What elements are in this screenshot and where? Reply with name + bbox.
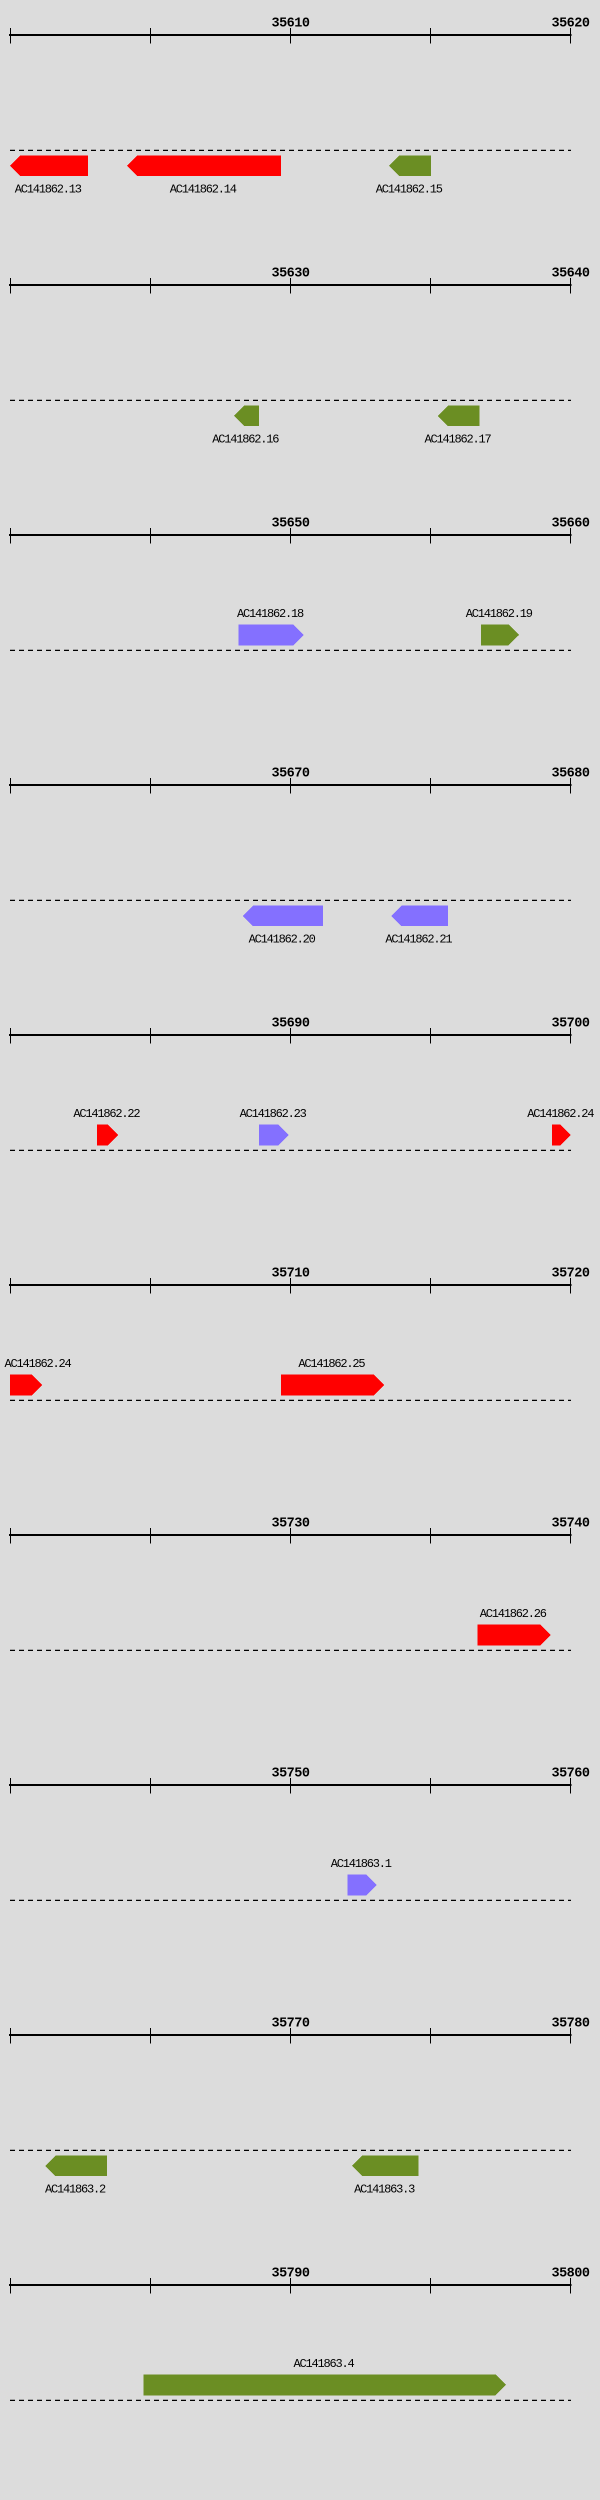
gene AC141862.20 arrow (reverse strand) <box>243 906 323 927</box>
svg-text:35710: 35710 <box>271 1267 309 1282</box>
panel 6 tick 35705 <box>150 1278 151 1294</box>
panel 2 tick 35640 <box>570 278 571 294</box>
panel 2 tick 35635 <box>430 278 431 294</box>
panel 10 tick 35790 <box>290 2278 291 2294</box>
panel 10 tick 35795 <box>430 2278 431 2294</box>
svg-text:35700: 35700 <box>551 1017 589 1032</box>
svg-text:AC141862.25: AC141862.25 <box>298 1357 365 1371</box>
panel 6 tick 35710 <box>290 1278 291 1294</box>
svg-text:35660: 35660 <box>551 517 589 532</box>
panel 5 tick 35685 <box>150 1028 151 1044</box>
panel 2 ruler line <box>9 284 572 286</box>
svg-text:AC141863.4: AC141863.4 <box>293 2357 354 2371</box>
svg-text:35780: 35780 <box>551 2017 589 2032</box>
svg-text:AC141862.19: AC141862.19 <box>466 607 533 621</box>
gene AC141862.25 arrow (forward strand) <box>281 1375 385 1396</box>
panel 3 ruler line <box>9 534 572 536</box>
gene AC141862.19 arrow (forward strand) <box>481 625 519 646</box>
svg-text:AC141862.24: AC141862.24 <box>527 1107 594 1121</box>
panel 6 tick 35715 <box>430 1278 431 1294</box>
svg-text:AC141863.1: AC141863.1 <box>331 1857 392 1871</box>
panel 8 dashed baseline <box>10 1899 571 1901</box>
panel 8 tick 35755 <box>430 1778 431 1794</box>
gene AC141862.24 arrow (forward strand) <box>10 1375 42 1396</box>
gene AC141862.15 arrow (reverse strand) <box>389 156 431 177</box>
gene AC141862.23 arrow (forward strand) <box>259 1125 289 1146</box>
panel 7 tick 35720 <box>10 1528 11 1544</box>
panel 4 ruler line <box>9 784 572 786</box>
panel 2 dashed baseline <box>10 399 571 401</box>
panel 8 tick 35760 <box>570 1778 571 1794</box>
svg-text:AC141862.14: AC141862.14 <box>170 182 237 196</box>
panel 8 tick 35745 <box>150 1778 151 1794</box>
svg-text:AC141862.23: AC141862.23 <box>240 1107 307 1121</box>
gene AC141862.21 arrow (reverse strand) <box>391 906 448 927</box>
gene AC141862.14 arrow (reverse strand) <box>127 156 281 177</box>
panel 5 tick 35680 <box>10 1028 11 1044</box>
panel 2 tick 35625 <box>150 278 151 294</box>
panel 7 dashed baseline <box>10 1649 571 1651</box>
panel 9 tick 35775 <box>430 2028 431 2044</box>
panel 4 tick 35680 <box>570 778 571 794</box>
svg-text:AC141863.3: AC141863.3 <box>354 2182 415 2196</box>
gene AC141862.22 arrow (forward strand) <box>97 1125 119 1146</box>
svg-text:35650: 35650 <box>271 517 309 532</box>
svg-text:AC141862.26: AC141862.26 <box>480 1607 547 1621</box>
gene AC141862.26 arrow (forward strand) <box>477 1625 550 1646</box>
svg-text:AC141862.18: AC141862.18 <box>237 607 304 621</box>
svg-text:35630: 35630 <box>271 267 309 282</box>
svg-text:35760: 35760 <box>551 1767 589 1782</box>
panel 4 tick 35675 <box>430 778 431 794</box>
svg-text:35750: 35750 <box>271 1767 309 1782</box>
panel 7 tick 35730 <box>290 1528 291 1544</box>
panel 1 dashed baseline <box>10 149 571 151</box>
panel 9 tick 35770 <box>290 2028 291 2044</box>
gene AC141863.1 arrow (forward strand) <box>347 1875 376 1896</box>
panel 1 tick 35615 <box>430 28 431 44</box>
panel 1 tick 35610 <box>290 28 291 44</box>
panel 5 tick 35690 <box>290 1028 291 1044</box>
svg-text:AC141862.20: AC141862.20 <box>249 932 316 946</box>
panel 3 tick 35660 <box>570 528 571 544</box>
panel 4 dashed baseline <box>10 899 571 901</box>
svg-text:AC141863.2: AC141863.2 <box>45 2182 106 2196</box>
panel 10 tick 35785 <box>150 2278 151 2294</box>
gene AC141862.24 arrow (forward strand) <box>552 1125 571 1146</box>
gene AC141863.4 arrow (forward strand) <box>143 2375 506 2396</box>
svg-text:35770: 35770 <box>271 2017 309 2032</box>
svg-text:AC141862.13: AC141862.13 <box>15 182 82 196</box>
panel 1 tick 35620 <box>570 28 571 44</box>
svg-text:35680: 35680 <box>551 767 589 782</box>
panel 9 tick 35780 <box>570 2028 571 2044</box>
panel 6 tick 35720 <box>570 1278 571 1294</box>
panel 4 tick 35660 <box>10 778 11 794</box>
svg-text:AC141862.16: AC141862.16 <box>212 432 279 446</box>
panel 6 dashed baseline <box>10 1399 571 1401</box>
panel 4 tick 35665 <box>150 778 151 794</box>
panel 1 tick 35605 <box>150 28 151 44</box>
panel 8 ruler line <box>9 1784 572 1786</box>
panel 3 tick 35640 <box>10 528 11 544</box>
svg-text:35610: 35610 <box>271 17 309 32</box>
svg-text:35800: 35800 <box>551 2267 589 2282</box>
gene AC141862.13 arrow (reverse strand) <box>10 156 88 177</box>
svg-text:35620: 35620 <box>551 17 589 32</box>
panel 10 dashed baseline <box>10 2399 571 2401</box>
svg-text:AC141862.22: AC141862.22 <box>73 1107 140 1121</box>
svg-text:35690: 35690 <box>271 1017 309 1032</box>
panel 10 tick 35780 <box>10 2278 11 2294</box>
panel 3 dashed baseline <box>10 649 571 651</box>
panel 6 ruler line <box>9 1284 572 1286</box>
panel 9 tick 35760 <box>10 2028 11 2044</box>
svg-text:35790: 35790 <box>271 2267 309 2282</box>
panel 3 tick 35655 <box>430 528 431 544</box>
panel 1 tick 35600 <box>10 28 11 44</box>
gene AC141862.17 arrow (reverse strand) <box>438 406 480 427</box>
panel 9 dashed baseline <box>10 2149 571 2151</box>
panel 1 ruler line <box>9 34 572 36</box>
panel 2 tick 35620 <box>10 278 11 294</box>
panel 5 dashed baseline <box>10 1149 571 1151</box>
svg-text:AC141862.15: AC141862.15 <box>376 182 443 196</box>
panel 5 tick 35700 <box>570 1028 571 1044</box>
svg-text:35670: 35670 <box>271 767 309 782</box>
panel 7 tick 35725 <box>150 1528 151 1544</box>
panel 5 ruler line <box>9 1034 572 1036</box>
gene AC141863.3 arrow (reverse strand) <box>352 2156 419 2177</box>
svg-text:35720: 35720 <box>551 1267 589 1282</box>
panel 7 tick 35740 <box>570 1528 571 1544</box>
panel 2 tick 35630 <box>290 278 291 294</box>
panel 6 tick 35700 <box>10 1278 11 1294</box>
svg-text:35640: 35640 <box>551 267 589 282</box>
gene AC141862.18 arrow (forward strand) <box>239 625 304 646</box>
panel 9 tick 35765 <box>150 2028 151 2044</box>
panel 8 tick 35740 <box>10 1778 11 1794</box>
svg-text:35740: 35740 <box>551 1517 589 1532</box>
panel 5 tick 35695 <box>430 1028 431 1044</box>
panel 7 tick 35735 <box>430 1528 431 1544</box>
panel 3 tick 35650 <box>290 528 291 544</box>
gene AC141863.2 arrow (reverse strand) <box>45 2156 107 2177</box>
panel 8 tick 35750 <box>290 1778 291 1794</box>
panel 10 ruler line <box>9 2284 572 2286</box>
panel 9 ruler line <box>9 2034 572 2036</box>
svg-text:AC141862.17: AC141862.17 <box>424 432 491 446</box>
svg-text:AC141862.21: AC141862.21 <box>385 932 452 946</box>
panel 7 ruler line <box>9 1534 572 1536</box>
gene AC141862.16 arrow (reverse strand) <box>234 406 259 427</box>
svg-text:AC141862.24: AC141862.24 <box>5 1357 72 1371</box>
panel 4 tick 35670 <box>290 778 291 794</box>
panel 10 tick 35800 <box>570 2278 571 2294</box>
panel 3 tick 35645 <box>150 528 151 544</box>
svg-text:35730: 35730 <box>271 1517 309 1532</box>
